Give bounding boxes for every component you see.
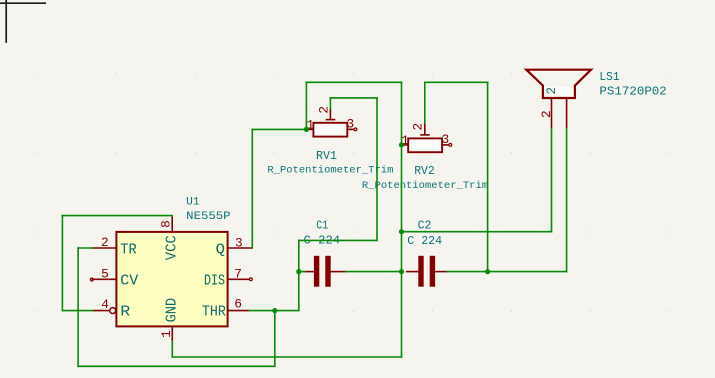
U1 pin names bbox=[120, 235, 226, 322]
wire RV1 wiper top bbox=[330, 97, 377, 99]
svg-text:PS1720P02: PS1720P02 bbox=[599, 85, 666, 99]
wire RV2 wiper vertical bbox=[424, 82, 426, 123]
IC U1 NE555P body bbox=[116, 232, 227, 327]
wire C1-left vertical bbox=[298, 240, 300, 310]
wire top horizontal RV2-C2right bbox=[425, 81, 488, 83]
wire VCC-R net vertical bbox=[61, 216, 63, 311]
svg-text:2: 2 bbox=[101, 235, 109, 250]
wire C2 right bbox=[447, 271, 487, 273]
LS1 pin 1 bbox=[551, 98, 553, 129]
wire VCC-R net top horizontal bbox=[62, 215, 172, 217]
C2 left plate bbox=[418, 256, 423, 287]
wire speaker-left horizontal bbox=[402, 231, 552, 233]
svg-text:3: 3 bbox=[441, 132, 449, 147]
pin 4 R bubble bbox=[110, 308, 116, 314]
svg-text:U1: U1 bbox=[186, 197, 200, 209]
capacitor C1 bbox=[304, 218, 346, 286]
svg-text:THR: THR bbox=[202, 305, 226, 321]
wire x487 vertical bbox=[487, 82, 489, 271]
svg-text:7: 7 bbox=[234, 266, 242, 281]
svg-text:DIS: DIS bbox=[204, 274, 225, 290]
svg-text:R: R bbox=[120, 305, 130, 321]
pin 2 TR stub bbox=[92, 247, 117, 249]
wire pin1 down bbox=[171, 342, 173, 357]
svg-text:RV2: RV2 bbox=[414, 164, 435, 178]
svg-text:8: 8 bbox=[159, 220, 174, 228]
C1 right pin bbox=[331, 271, 346, 273]
wire Q vertical bbox=[251, 129, 253, 248]
RV1 pin 3 stub bbox=[347, 128, 353, 130]
svg-text:C 224: C 224 bbox=[407, 234, 442, 248]
svg-text:R_Potentiometer_Trim: R_Potentiometer_Trim bbox=[267, 165, 393, 177]
pin 4 R stub bbox=[93, 310, 109, 312]
potentiometer RV2 bbox=[362, 123, 488, 192]
wire Q to RV1 pin1 bbox=[252, 128, 307, 130]
junction RV1 pin1 bbox=[304, 127, 309, 132]
svg-text:NE555P: NE555P bbox=[186, 211, 231, 223]
wire TR approach bbox=[78, 247, 92, 249]
svg-text:2: 2 bbox=[539, 110, 554, 118]
wire speaker-right vertical bbox=[566, 129, 568, 272]
LS1 outline bbox=[526, 70, 591, 98]
wire R approach bbox=[62, 310, 92, 312]
junction C2 left bbox=[399, 269, 404, 274]
svg-text:4: 4 bbox=[101, 297, 109, 312]
RV1 pin 1 stub bbox=[307, 128, 314, 130]
wire top horizontal RV1-RV2 bbox=[306, 81, 401, 83]
RV2 pin 3 stub bbox=[442, 144, 448, 146]
wire pin1 GND horizontal bbox=[172, 356, 401, 358]
RV1 wiper stem bbox=[329, 109, 331, 120]
pin 1 GND stub bbox=[171, 327, 173, 342]
wire TR vertical bbox=[77, 248, 79, 366]
wire main vertical x401 bbox=[401, 82, 403, 357]
C1 left plate bbox=[314, 256, 319, 287]
U1 pin numbers bbox=[101, 220, 243, 338]
svg-text:Q: Q bbox=[216, 242, 226, 258]
RV1 body bbox=[313, 123, 347, 137]
pin 7 DIS stub bbox=[228, 278, 249, 280]
svg-text:TR: TR bbox=[120, 242, 137, 258]
wire RV1 wiper drop bbox=[329, 98, 331, 109]
svg-text:3: 3 bbox=[235, 235, 243, 250]
C1 right plate bbox=[325, 256, 330, 287]
RV2 body bbox=[408, 138, 442, 152]
C2 left pin bbox=[406, 271, 419, 273]
wire C1 left tap bbox=[299, 271, 305, 273]
junction C2 right bbox=[485, 269, 490, 274]
U1 pins bbox=[90, 216, 252, 341]
svg-text:3: 3 bbox=[346, 117, 354, 132]
capacitor C2 bbox=[406, 218, 447, 286]
svg-text:VCC: VCC bbox=[165, 235, 181, 260]
junction THR bbox=[272, 308, 277, 313]
wire RV1 wiper vertical bbox=[376, 98, 378, 241]
pin 5 CV open circle bbox=[90, 278, 93, 281]
pin 6 THR stub bbox=[228, 310, 250, 312]
pin 3 Q stub bbox=[228, 247, 253, 249]
svg-text:R_Potentiometer_Trim: R_Potentiometer_Trim bbox=[362, 180, 488, 192]
svg-text:6: 6 bbox=[234, 297, 242, 312]
svg-text:5: 5 bbox=[101, 266, 109, 281]
svg-text:GND: GND bbox=[165, 298, 181, 323]
pin 7 DIS open circle bbox=[249, 278, 252, 281]
LS1 pin 2 bbox=[566, 98, 568, 129]
pin 8 VCC stub bbox=[171, 216, 173, 232]
speaker LS1 bbox=[526, 70, 667, 129]
pin 5 CV stub bbox=[92, 278, 117, 280]
svg-text:2: 2 bbox=[317, 106, 332, 114]
junction C1 left bbox=[296, 269, 301, 274]
RV2 wiper T bar bbox=[420, 134, 430, 136]
C2 right pin bbox=[435, 271, 447, 273]
svg-text:1: 1 bbox=[159, 330, 174, 338]
RV1 wiper T bar bbox=[326, 119, 336, 121]
wire RV1 pin1 up bbox=[305, 82, 307, 129]
potentiometer RV1 bbox=[267, 106, 393, 177]
junction speaker-left tap bbox=[399, 229, 404, 234]
svg-text:C1: C1 bbox=[316, 218, 328, 232]
LS1 body fill bbox=[544, 87, 574, 97]
wire C1 right to C2 left bbox=[346, 271, 402, 273]
svg-text:RV1: RV1 bbox=[316, 149, 337, 163]
C2 right plate bbox=[430, 256, 435, 287]
svg-text:2: 2 bbox=[544, 87, 559, 95]
wire speaker-left vertical bbox=[551, 129, 553, 232]
C1 left pin bbox=[305, 271, 314, 273]
wire THR down bbox=[274, 311, 276, 367]
wire C1-left to RV1 wiper horizontal bbox=[299, 239, 377, 241]
svg-text:C2: C2 bbox=[418, 218, 432, 232]
U1 reference and value bbox=[186, 197, 231, 223]
RV1 pin 3 open circle bbox=[354, 128, 357, 131]
svg-text:2: 2 bbox=[411, 123, 426, 131]
junction RV2 pin1 bbox=[399, 142, 404, 147]
RV2 pin 1 stub bbox=[402, 144, 408, 146]
svg-text:CV: CV bbox=[120, 274, 138, 290]
junction dots bbox=[272, 127, 490, 313]
wire bottom TR-THR bbox=[78, 365, 275, 367]
wire THR to C1 branch bbox=[249, 310, 299, 312]
RV2 wiper stem bbox=[424, 123, 426, 135]
wire C2right-speaker horizontal bbox=[488, 271, 567, 273]
RV2 pin 3 open circle bbox=[449, 144, 452, 147]
svg-text:LS1: LS1 bbox=[599, 70, 619, 84]
